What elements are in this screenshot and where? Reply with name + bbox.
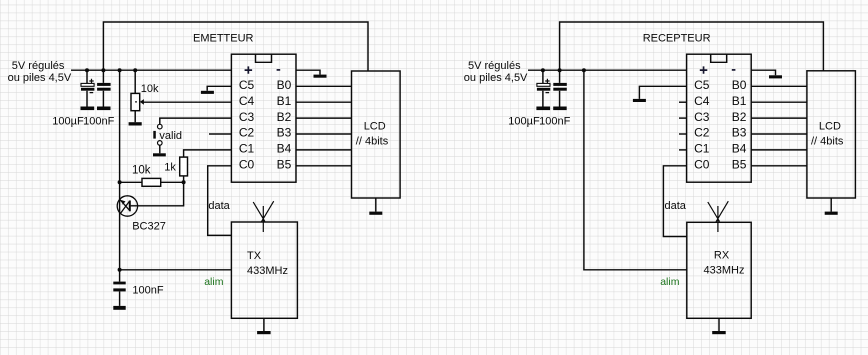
wire B1 right to LCD [751, 101, 807, 103]
svg-text:BC327: BC327 [132, 221, 166, 233]
ground C5 right [633, 99, 646, 102]
node rail-C4 junction [558, 68, 562, 72]
wire LCD right to ground [830, 198, 832, 212]
svg-text:10k: 10k [132, 164, 151, 176]
wire C0 right to RX data [663, 166, 686, 237]
ground LCD right [825, 212, 838, 215]
ground RX [712, 331, 726, 334]
push-button valid [153, 124, 162, 153]
svg-text:C1: C1 [239, 142, 255, 156]
wire C1 to 1k [184, 150, 232, 157]
wire C5 right to ground [639, 86, 686, 99]
svg-text:alim: alim [204, 276, 224, 288]
wire base node to transistor base [131, 182, 184, 206]
wire B5 to LCD [296, 165, 352, 167]
svg-text:C4: C4 [239, 94, 255, 108]
module RX 433MHz box [687, 222, 751, 318]
capacitor 100uF right [537, 70, 550, 106]
svg-text:C5: C5 [239, 78, 255, 92]
svg-text:ou piles 4,5V: ou piles 4,5V [8, 72, 72, 84]
lcd display left [352, 71, 401, 198]
wire rail to 10k resistor [120, 181, 142, 183]
wire +5V rail right [528, 69, 687, 71]
capacitor 100nF bottom-left [113, 270, 125, 306]
svg-text:C2: C2 [239, 126, 255, 140]
svg-text:ou piles 4,5V: ou piles 4,5V [464, 72, 528, 84]
svg-text:1k: 1k [164, 162, 176, 174]
svg-text:433MHz: 433MHz [247, 265, 288, 277]
wire C4 stub right [679, 101, 687, 103]
ground for 100nF top-left [97, 107, 111, 111]
svg-text:B3: B3 [277, 126, 292, 140]
svg-text:RX: RX [714, 249, 730, 261]
wire B4 right to LCD [751, 149, 807, 151]
wire C2 stub right [679, 133, 687, 135]
ground for pot [129, 122, 142, 125]
pin + U2 [700, 66, 708, 73]
wire alim to TX [120, 269, 232, 271]
ground for 100nF bottom [113, 306, 125, 310]
svg-text:data: data [208, 200, 230, 212]
svg-text:LCD: LCD [819, 121, 841, 133]
resistor 1k R2 [180, 157, 188, 176]
wire C0 to TX data [208, 166, 232, 236]
wire C1 stub right [679, 149, 687, 151]
pin - U1 [277, 69, 281, 71]
ground - pin right [769, 75, 782, 78]
wire top rail loop left [103, 22, 368, 71]
svg-text:B3: B3 [732, 126, 747, 140]
ic U2 notch [711, 54, 727, 62]
wire 1k to base node [183, 176, 185, 182]
svg-text:C4: C4 [694, 94, 710, 108]
wire - pin to ground [296, 70, 320, 74]
ground C5 left [201, 91, 214, 94]
wire alim right vertical [584, 70, 687, 270]
svg-text:valid: valid [159, 130, 182, 142]
svg-text:100nF: 100nF [83, 115, 114, 127]
svg-text:C1: C1 [694, 142, 710, 156]
wire RX to ground [718, 318, 720, 331]
node long rail / 10k junction [118, 180, 122, 184]
svg-text:EMETTEUR: EMETTEUR [193, 32, 254, 44]
ic U2 receiver box [687, 54, 752, 182]
wire pot wiper to C4 [144, 101, 232, 103]
svg-text:B0: B0 [732, 78, 747, 92]
svg-text:433MHz: 433MHz [704, 265, 745, 277]
potentiometer 10k P1 [131, 70, 144, 122]
svg-text:alim: alim [660, 276, 680, 288]
svg-text:// 4bits: // 4bits [811, 136, 844, 148]
pin - U2 [732, 69, 736, 71]
wire - pin right to ground [751, 70, 775, 75]
ground LCD left [369, 212, 382, 215]
svg-text:100nF: 100nF [132, 285, 163, 297]
node rail-long junction [118, 68, 122, 72]
svg-text:B0: B0 [277, 78, 292, 92]
svg-text:C3: C3 [239, 110, 255, 124]
svg-text:10k: 10k [141, 83, 159, 95]
antenna RX [708, 201, 729, 232]
node rail-pot junction [133, 68, 137, 72]
svg-text:5V régulés: 5V régulés [468, 60, 521, 72]
wire B2 to LCD [296, 117, 352, 119]
transistor Q1 BC327 [117, 196, 137, 216]
svg-text:B1: B1 [277, 94, 292, 108]
wire C2 stub [209, 133, 231, 135]
svg-text:C5: C5 [694, 78, 710, 92]
svg-text:C2: C2 [694, 126, 710, 140]
wire B3 to LCD [296, 133, 352, 135]
svg-text:RECEPTEUR: RECEPTEUR [643, 33, 711, 45]
svg-text:TX: TX [247, 250, 262, 262]
svg-text:B4: B4 [277, 142, 292, 156]
capacitor 100uF [81, 70, 94, 106]
svg-text:100nF: 100nF [539, 115, 570, 127]
svg-text:B5: B5 [277, 158, 292, 172]
wire +5V rail left [71, 69, 231, 71]
node rail-C3 junction [541, 68, 545, 72]
pin + U1 [245, 66, 253, 73]
wire TX to ground [263, 318, 265, 331]
svg-text:B1: B1 [732, 94, 747, 108]
node base network junction [182, 180, 186, 184]
ic U1 notch [256, 54, 272, 62]
wire C5 to ground [207, 86, 231, 91]
node long rail / alim junction [118, 268, 122, 272]
resistor 10k R1 [142, 178, 161, 186]
capacitor 100nF right [553, 70, 567, 106]
wire C3 stub right [679, 117, 687, 119]
wire long left vertical rail [119, 70, 121, 270]
svg-text:B4: B4 [732, 142, 747, 156]
svg-text:5V régulés: 5V régulés [12, 60, 65, 72]
wire LCD left to ground [375, 198, 377, 212]
wire B0 to LCD [296, 85, 352, 87]
svg-text:// 4bits: // 4bits [356, 136, 389, 148]
svg-text:C0: C0 [239, 158, 255, 172]
svg-text:B5: B5 [732, 158, 747, 172]
node rail-alim junction [582, 68, 586, 72]
svg-text:data: data [665, 200, 687, 212]
capacitor 100nF top-left [97, 70, 111, 106]
wire B2 right to LCD [751, 117, 807, 119]
module TX 433MHz box [231, 222, 297, 318]
wire B5 right to LCD [751, 165, 807, 167]
svg-text:B2: B2 [277, 110, 292, 124]
svg-text:LCD: LCD [364, 121, 386, 133]
wire top rail loop right [560, 22, 824, 71]
node rail-C2 junction [101, 68, 105, 72]
svg-text:B2: B2 [732, 110, 747, 124]
wire 10k to base node [161, 181, 184, 183]
ground for 100uF right [536, 107, 550, 111]
lcd display right [807, 71, 856, 198]
svg-text:C3: C3 [694, 110, 710, 124]
wire C3 to button [160, 118, 232, 124]
ic U1 emitter box [231, 54, 296, 182]
ground for valid button [153, 153, 166, 156]
wire B3 right to LCD [751, 133, 807, 135]
wire B1 to LCD [296, 101, 352, 103]
svg-text:C0: C0 [694, 158, 710, 172]
antenna TX [253, 201, 274, 232]
wire B0 right to LCD [751, 85, 807, 87]
wire B4 to LCD [296, 149, 352, 151]
svg-text:100µF: 100µF [508, 115, 540, 127]
ground - pin left [314, 75, 327, 78]
ground for 100uF [81, 107, 95, 111]
ground TX [257, 331, 271, 334]
ground for 100nF right [553, 107, 567, 111]
node rail-C1 junction [85, 68, 89, 72]
svg-text:100µF: 100µF [52, 115, 84, 127]
